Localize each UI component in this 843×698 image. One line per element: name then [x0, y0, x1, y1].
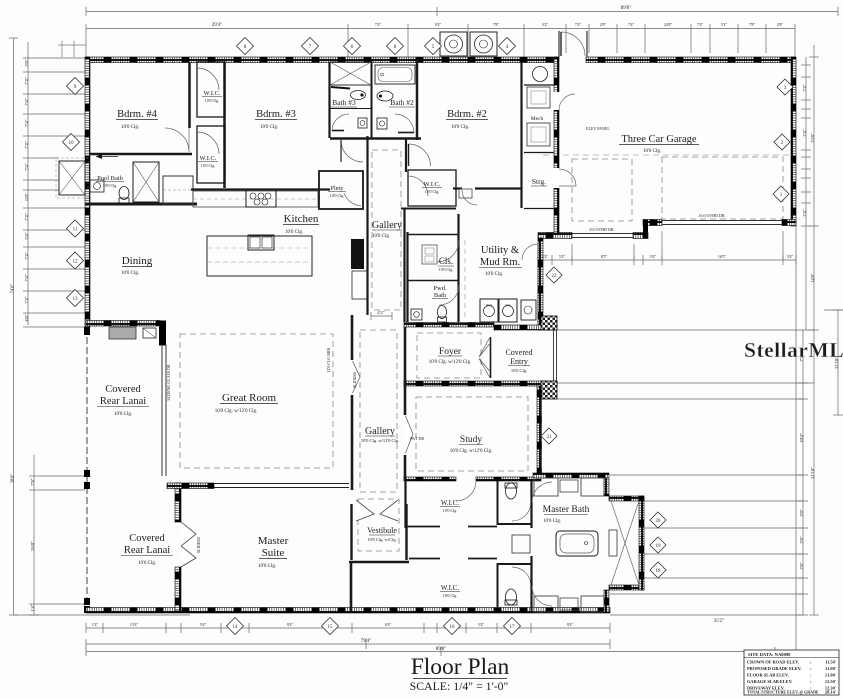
svg-text:Mech: Mech — [531, 116, 544, 122]
svg-text:12: 12 — [73, 260, 79, 265]
svg-text:Bath: Bath — [434, 292, 447, 299]
svg-text:7'4": 7'4" — [24, 98, 29, 105]
node bath2 toilet — [377, 91, 393, 101]
node gallery sliders to lanai — [353, 361, 361, 393]
node gallery lower ceiling dash — [360, 330, 397, 492]
svg-text:7'4": 7'4" — [24, 252, 29, 259]
wire cls/pwd divider — [407, 280, 459, 282]
svg-text:7'4": 7'4" — [24, 274, 29, 281]
svg-text:Wsh: Wsh — [486, 303, 493, 307]
wire master suite north wall — [167, 483, 214, 489]
node study ceiling dash — [416, 397, 528, 471]
svg-text:2'8": 2'8" — [600, 22, 607, 27]
svg-text:SLIDERS: SLIDERS — [196, 537, 201, 553]
svg-text:74'8": 74'8" — [10, 284, 15, 294]
wire right lower dim line — [802, 330, 804, 615]
svg-text:Utility &: Utility & — [481, 245, 519, 256]
svg-text:5'4": 5'4" — [200, 622, 207, 627]
node vestibule ceiling dash — [358, 499, 399, 551]
wire bath3 west wall — [328, 62, 330, 138]
wire top wall extension ticks — [85, 33, 87, 57]
svg-text:StellarMLS: StellarMLS — [744, 338, 843, 362]
wire right horizontal extension lines — [557, 329, 814, 331]
svg-text:Bath #3: Bath #3 — [332, 98, 356, 107]
svg-text:14'8": 14'8" — [810, 273, 815, 283]
node bdrm3 door arc — [341, 140, 363, 162]
svg-text:7'4": 7'4" — [575, 22, 582, 27]
svg-text:10'0 Clg.: 10'0 Clg. — [205, 98, 220, 103]
svg-text:1'4": 1'4" — [30, 604, 35, 611]
svg-text:15'4": 15'4" — [130, 622, 139, 627]
node strg door to garage — [559, 169, 576, 186]
svg-text:4'2": 4'2" — [377, 310, 384, 315]
svg-text:7'4": 7'4" — [24, 296, 29, 303]
svg-text:8.0 OVHD DR.: 8.0 OVHD DR. — [589, 227, 614, 232]
svg-text:10: 10 — [69, 141, 75, 146]
wire left lower dim line — [33, 455, 35, 615]
svg-text:10'0 Clg. w/Clg.: 10'0 Clg. w/Clg. — [367, 537, 397, 542]
node fridge — [351, 239, 364, 269]
wire gallery dim — [371, 315, 392, 317]
node pool bath sink — [90, 180, 104, 192]
svg-text:7'4": 7'4" — [375, 22, 382, 27]
wire bdrm2 west wall upper — [416, 60, 419, 140]
svg-text:10'0 Clg.: 10'0 Clg. — [451, 125, 469, 130]
wire wc1 walls — [497, 481, 499, 525]
svg-text:14: 14 — [233, 625, 239, 630]
wire right dim long line — [813, 45, 815, 615]
svg-text:Three Car Garage: Three Car Garage — [621, 134, 697, 145]
wire wc2 walls — [497, 563, 499, 607]
node pool bath shower — [133, 162, 159, 202]
wire study south wall — [404, 477, 456, 481]
node garage bay dash left — [572, 159, 632, 221]
svg-text:7'4": 7'4" — [628, 22, 635, 27]
svg-text:12'0 CLG BRK: 12'0 CLG BRK — [326, 347, 331, 372]
wire foyer / covered entry south wall — [404, 381, 557, 386]
svg-text:10'0 Clg.: 10'0 Clg. — [443, 593, 458, 598]
svg-text:5'4": 5'4" — [478, 622, 485, 627]
svg-text:7'4": 7'4" — [802, 129, 807, 136]
svg-text:10'0 Clg.: 10'0 Clg. — [285, 230, 303, 235]
svg-text:10'0 Clg.: 10'0 Clg. — [330, 193, 345, 198]
svg-text:7'4": 7'4" — [24, 119, 29, 126]
svg-text:16'5": 16'5" — [718, 254, 727, 259]
wire garage south wall left + overhead door — [538, 233, 572, 239]
node bdrm2 wic — [408, 170, 456, 206]
node wc2 toilet — [506, 589, 517, 605]
svg-text:7'4": 7'4" — [24, 163, 29, 170]
wire cls north wall — [407, 234, 459, 236]
svg-text:FLOOR SLAB ELEV.: FLOOR SLAB ELEV. — [747, 673, 789, 678]
node mb doors — [532, 482, 552, 502]
node strg room — [524, 152, 554, 154]
svg-text:11.00': 11.00' — [825, 666, 836, 671]
svg-text:Kitchen: Kitchen — [284, 213, 319, 225]
svg-text:Bath #2: Bath #2 — [390, 98, 414, 107]
svg-text:Strg.: Strg. — [532, 177, 546, 186]
svg-text:Bdrm. #2: Bdrm. #2 — [447, 109, 487, 120]
wire gallery upper west wall — [366, 136, 368, 170]
svg-text:7'8": 7'8" — [493, 22, 500, 27]
svg-text:13.00': 13.00' — [825, 673, 836, 678]
node diamond markers bottom — [227, 618, 521, 635]
svg-text:10'0 Clg.: 10'0 Clg. — [643, 149, 661, 154]
wire gallery upper east wall — [405, 139, 407, 172]
svg-text:20'8": 20'8" — [10, 474, 15, 484]
wire vestibule east wall — [405, 504, 407, 560]
svg-text:W.I.C.: W.I.C. — [200, 155, 217, 162]
svg-text:10'0 Clg.: 10'0 Clg. — [260, 125, 278, 130]
svg-text:10'0 Clg.: 10'0 Clg. — [201, 163, 216, 168]
svg-text:Covered: Covered — [505, 348, 532, 357]
node utility bench — [464, 240, 466, 320]
svg-text:Bdrm. #4: Bdrm. #4 — [117, 109, 157, 120]
svg-text:Rear Lanai: Rear Lanai — [100, 396, 146, 407]
node vestibule double doors — [356, 500, 374, 521]
svg-text:16.0 OVHD DR.: 16.0 OVHD DR. — [698, 213, 725, 218]
svg-text:15: 15 — [328, 625, 334, 630]
node diamond markers top — [237, 38, 516, 55]
svg-text:31'10": 31'10" — [810, 467, 815, 479]
svg-text:89'8": 89'8" — [436, 647, 446, 652]
svg-text:2'8": 2'8" — [799, 509, 804, 516]
node master bath vanities bottom — [534, 596, 558, 612]
node attic arrow — [96, 156, 118, 158]
wire bdrm3 west wall — [223, 62, 226, 188]
svg-text:8'5": 8'5" — [601, 254, 608, 259]
node WIC door arcs — [197, 68, 219, 90]
node great room sliding glass door — [161, 345, 163, 476]
svg-text:Suite: Suite — [262, 547, 285, 559]
wire master suite west wall (to lanai) — [175, 483, 181, 522]
node wc1 toilet — [506, 483, 517, 499]
wire covered entry north wall — [494, 325, 557, 330]
svg-text:ELEV PANEL: ELEV PANEL — [586, 126, 610, 131]
svg-text:CROWN OF ROAD ELEV.: CROWN OF ROAD ELEV. — [747, 660, 799, 665]
svg-text:Plnty: Plnty — [331, 186, 344, 192]
svg-text:3'2": 3'2" — [542, 22, 549, 27]
svg-text:W.I.C.: W.I.C. — [441, 584, 459, 592]
wire foyer north wall — [404, 323, 494, 328]
svg-text:13: 13 — [73, 297, 79, 302]
node garage slab dash — [543, 154, 791, 156]
svg-text:89'8": 89'8" — [621, 6, 631, 11]
wire left exterior wall — [85, 57, 90, 327]
svg-text:4'8": 4'8" — [24, 314, 29, 321]
svg-text:21: 21 — [547, 435, 553, 440]
svg-text:Covered: Covered — [105, 384, 141, 395]
svg-text:7'4": 7'4" — [802, 209, 807, 216]
node pwd toilet — [438, 306, 447, 319]
node study pocket door — [406, 416, 414, 453]
svg-text:Study: Study — [460, 435, 482, 445]
svg-text:Master: Master — [258, 535, 289, 547]
svg-text:1'4": 1'4" — [92, 622, 99, 627]
node bdrm2 door — [409, 144, 431, 166]
wire bdrm2 east wall — [520, 62, 522, 208]
svg-text:SLIDERS: SLIDERS — [352, 372, 357, 388]
svg-text:W.I.C.: W.I.C. — [424, 181, 441, 188]
svg-text:23'8": 23'8" — [810, 133, 815, 143]
wire garage court dim row — [538, 259, 796, 261]
svg-text:GARAGE SLAB ELEV.: GARAGE SLAB ELEV. — [747, 679, 793, 684]
wire left dim line inner — [27, 42, 29, 325]
svg-text:Dining: Dining — [122, 255, 153, 267]
node pool bath toilet — [119, 187, 129, 200]
node pool bath bump-out — [59, 161, 85, 195]
svg-text:28.14': 28.14' — [825, 690, 836, 695]
svg-text:10'0 Clg.: 10'0 Clg. — [511, 368, 527, 373]
node cls shelves — [422, 245, 437, 264]
svg-text:10'0 Clg.: 10'0 Clg. — [121, 125, 139, 130]
svg-text:10'0 Clg.: 10'0 Clg. — [425, 189, 440, 194]
svg-text:10'0 Clg.: 10'0 Clg. — [372, 234, 390, 239]
wire study east wall — [537, 386, 542, 477]
wire gallery lower east wall — [404, 327, 407, 415]
wire bath divider wall — [371, 60, 373, 138]
svg-text:2'8": 2'8" — [799, 536, 804, 543]
wire master bath west wall — [530, 481, 532, 528]
wire bdrm4/bdrm3 wall — [188, 62, 191, 128]
svg-text:SITE DATA: NA0098: SITE DATA: NA0098 — [748, 652, 791, 657]
svg-text:16: 16 — [450, 625, 456, 630]
node freestanding tub — [556, 531, 598, 556]
svg-text:17: 17 — [510, 625, 516, 630]
svg-text:7'4": 7'4" — [24, 213, 29, 220]
svg-text:11.50': 11.50' — [825, 660, 836, 665]
node master suite sliding door — [181, 522, 196, 567]
svg-text:9'4": 9'4" — [567, 622, 574, 627]
wire top-left mini dims — [61, 41, 63, 57]
svg-text:6'0": 6'0" — [24, 193, 29, 200]
svg-text:6'4": 6'4" — [385, 622, 392, 627]
svg-text:Great Room: Great Room — [222, 392, 277, 404]
svg-text:Dry: Dry — [505, 303, 511, 307]
wire WIC1 box bdrm4 — [197, 62, 225, 117]
svg-text:10'0 Clg. w/12'0 Clg.: 10'0 Clg. w/12'0 Clg. — [361, 438, 399, 443]
wire bottom dim row 1 — [86, 627, 610, 629]
node gallery upper ceiling dash — [372, 150, 401, 310]
svg-text:Gallery: Gallery — [365, 426, 395, 437]
wire top dim line 2 — [86, 28, 795, 30]
svg-text:SCALE: 1/4" = 1'-0": SCALE: 1/4" = 1'-0" — [410, 679, 509, 693]
svg-text:W.I.C.: W.I.C. — [204, 90, 221, 97]
wire kitchen north wall — [191, 188, 330, 190]
wire vestibule west wall — [350, 504, 352, 560]
svg-text:PROPOSED GRADE ELEV.: PROPOSED GRADE ELEV. — [747, 666, 802, 671]
wire WIC2 box bdrm4 — [197, 126, 225, 183]
wire master bath north wall — [533, 473, 609, 478]
svg-text:26'8": 26'8" — [30, 541, 35, 551]
svg-text:20: 20 — [656, 519, 662, 524]
wire lanai west screen wall — [86, 327, 88, 611]
svg-text:79'4": 79'4" — [361, 639, 371, 644]
svg-text:5'4": 5'4" — [24, 232, 29, 239]
wire bdrm2 south wall — [475, 187, 522, 189]
wire top dim line 1 — [86, 11, 838, 13]
svg-text:Vestibule: Vestibule — [367, 526, 397, 535]
node bath3 sink — [358, 118, 367, 128]
svg-text:5'4": 5'4" — [787, 254, 794, 259]
svg-text:5'1": 5'1" — [721, 22, 728, 27]
svg-text:24'8": 24'8" — [664, 22, 673, 27]
svg-text:W.I.C.: W.I.C. — [441, 499, 459, 507]
svg-text:10'0 Clg.: 10'0 Clg. — [485, 272, 503, 277]
node master bath vanities top — [534, 478, 558, 496]
svg-text:10'0 Clg.: 10'0 Clg. — [443, 508, 458, 513]
svg-text:7'4": 7'4" — [24, 77, 29, 84]
node dim labels left — [0, 59, 1, 61]
svg-text:5'4": 5'4" — [559, 254, 566, 259]
node garage side door arc — [559, 94, 575, 110]
wire right corner dim — [837, 310, 839, 415]
wire lanai north wall — [86, 321, 160, 327]
svg-text:7'8": 7'8" — [749, 22, 756, 27]
svg-text:5'4": 5'4" — [542, 254, 549, 259]
wire left dim line outer — [13, 38, 15, 615]
wire master bath east wall — [604, 478, 609, 496]
svg-text:10'0 Clg.: 10'0 Clg. — [138, 561, 156, 566]
svg-text:Pwd.: Pwd. — [433, 285, 447, 292]
node linen — [512, 535, 530, 553]
wire cls/pwd west wall — [406, 232, 408, 322]
node top entry recess — [559, 31, 587, 57]
svg-text:9'4": 9'4" — [435, 22, 442, 27]
node pwd sink — [411, 309, 422, 320]
svg-text:18: 18 — [656, 569, 662, 574]
wire WIC1 walls — [404, 481, 406, 528]
node utility washer dryer — [480, 299, 498, 322]
svg-text:7'4": 7'4" — [802, 84, 807, 91]
wire garage south wall right + overhead door — [643, 220, 662, 226]
svg-text:7'4": 7'4" — [697, 22, 704, 27]
svg-text:Pool Bath: Pool Bath — [97, 175, 124, 182]
svg-text:35'2": 35'2" — [714, 619, 724, 624]
svg-text:12.50': 12.50' — [825, 679, 836, 684]
wire pool bath south wall — [85, 203, 197, 206]
node summer kitchen grill — [109, 327, 136, 339]
node diamond markers right — [541, 79, 793, 578]
svg-text:2'8": 2'8" — [777, 22, 784, 27]
svg-text:11: 11 — [73, 228, 78, 233]
svg-text:29'4": 29'4" — [212, 23, 222, 28]
svg-text:10'0 Clg.: 10'0 Clg. — [439, 267, 454, 272]
node bath2 sink — [377, 118, 387, 129]
svg-text:10'0 Clg.: 10'0 Clg. — [258, 564, 276, 569]
node AC units on pad — [440, 32, 467, 56]
node dim labels right — [799, 84, 839, 569]
svg-text:Floor Plan: Floor Plan — [411, 654, 510, 680]
svg-text:Mud Rm.: Mud Rm. — [480, 257, 520, 268]
svg-text:PKT DR: PKT DR — [410, 436, 424, 441]
node front door chevrons — [479, 338, 490, 357]
svg-text:10'0 Clg.: 10'0 Clg. — [103, 183, 118, 188]
svg-text:10'0 Clg.: 10'0 Clg. — [114, 412, 132, 417]
svg-text:Foyer: Foyer — [439, 347, 462, 357]
node pantry — [319, 171, 363, 209]
node utility sink — [521, 300, 536, 320]
svg-text:9'4": 9'4" — [287, 622, 294, 627]
svg-text:Bdrm. #3: Bdrm. #3 — [256, 109, 296, 120]
wire master suite SE L-wall — [349, 561, 409, 564]
wire west garage-court wall — [538, 238, 543, 330]
svg-text:7'8": 7'8" — [30, 478, 35, 485]
svg-text:2'8": 2'8" — [799, 562, 804, 569]
svg-text:7'4": 7'4" — [24, 141, 29, 148]
wire bdrm4 south wall — [90, 153, 192, 156]
svg-text:2'8": 2'8" — [24, 59, 29, 66]
svg-text:10'0 Clg.: 10'0 Clg. — [121, 271, 139, 276]
wire baths south wall — [330, 137, 421, 140]
wire bottom dim row 3 — [86, 651, 775, 653]
svg-text:Rear Lanai: Rear Lanai — [124, 545, 170, 556]
node door bdrm4 — [165, 128, 189, 152]
svg-text:TOTAL STRUCTURE ELEV. @ GRADE: TOTAL STRUCTURE ELEV. @ GRADE — [747, 690, 819, 695]
svg-text:Gallery: Gallery — [372, 220, 402, 231]
node garage bay dash right — [662, 157, 783, 219]
svg-text:SLIDING GLASS DR.: SLIDING GLASS DR. — [166, 363, 171, 400]
svg-text:Entry: Entry — [510, 357, 528, 366]
wire left wall extension ticks — [33, 57, 85, 59]
node bath3 shower — [330, 62, 371, 85]
node bath2 tub — [375, 65, 415, 84]
node diamond markers left — [63, 78, 84, 307]
wire WIC2 north wall — [409, 558, 440, 560]
node island sink — [248, 235, 274, 250]
svg-text:10'0 Clg. w/12'0 Clg.: 10'0 Clg. w/12'0 Clg. — [450, 449, 493, 454]
node master shower bump-out — [609, 496, 644, 501]
wire garage west wall — [554, 57, 559, 233]
wire top exterior wall — [86, 57, 558, 63]
svg-text:19: 19 — [656, 544, 662, 549]
node site data table — [744, 650, 839, 695]
node kitchen island — [207, 236, 312, 276]
wire right dim window line — [805, 57, 807, 330]
node bath3 toilet — [351, 91, 366, 100]
wire bottom exterior wall — [86, 608, 610, 614]
wire garage right exterior wall — [791, 57, 796, 226]
node mech room — [524, 84, 554, 86]
svg-text:10'0 Clg.: 10'0 Clg. — [543, 519, 561, 524]
wire cls/pwd east wall — [457, 214, 459, 322]
svg-text:Covered: Covered — [129, 533, 165, 544]
svg-text:Cls.: Cls. — [439, 256, 453, 266]
svg-text:10'4": 10'4" — [799, 433, 804, 443]
wire bottom dim row 2 — [86, 643, 610, 645]
svg-text:10'0 Clg. w/12'0 Clg.: 10'0 Clg. w/12'0 Clg. — [429, 360, 472, 365]
svg-text:22: 22 — [552, 274, 558, 279]
node garage to utility door — [522, 244, 538, 260]
wire gallery lower west wall — [351, 315, 354, 360]
svg-text:Master Bath: Master Bath — [543, 505, 590, 515]
node great room ceiling dash — [180, 334, 333, 468]
svg-text:5'4": 5'4" — [650, 254, 657, 259]
node bdrm4 closet box — [163, 176, 193, 204]
node kitchen counter — [193, 191, 318, 207]
node covered entry corner posts — [541, 316, 557, 330]
node cooktop — [246, 190, 276, 207]
node foyer ceiling dash — [417, 333, 481, 378]
svg-text:10'0 Clg. w/12'0 Clg.: 10'0 Clg. w/12'0 Clg. — [215, 409, 258, 414]
